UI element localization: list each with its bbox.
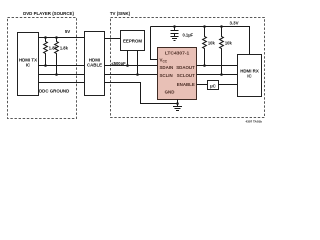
node R4 bottom junction (SCLOUT) [220, 73, 223, 76]
node ground junction [176, 102, 179, 105]
wire uC to HDMI RX [219, 84, 238, 86]
node R2 bottom junction (SCL) [55, 73, 58, 76]
node R1 top junction [44, 36, 47, 39]
svg-text:µC: µC [210, 83, 217, 88]
wire SCL (cable to SCLIN) [105, 74, 158, 76]
node R4 top junction [220, 25, 223, 28]
wire SDA (cable to SDAIN) [105, 65, 158, 67]
ground (chip GND) [173, 107, 182, 111]
svg-text:DVD PLAYER (SOURCE): DVD PLAYER (SOURCE) [23, 11, 74, 16]
node C1 rail junction [173, 25, 176, 28]
svg-text:5V: 5V [65, 29, 70, 34]
wire VCC (3.3V rail to VCC pin) [151, 27, 158, 60]
resistor R1 1.8k [44, 38, 58, 66]
svg-text:ENABLE: ENABLE [177, 82, 195, 87]
wire 3.3V rail [151, 27, 250, 55]
ground (under C1) [171, 37, 179, 41]
svg-text:10k: 10k [208, 40, 216, 45]
dashed box TV (sink) [111, 18, 265, 118]
EEPROM box [121, 31, 145, 51]
svg-text:SDAIN: SDAIN [160, 65, 174, 70]
wire SCL (source to cable) [39, 74, 85, 76]
wire DDC ground (cable to GND node) [105, 83, 178, 104]
svg-text:CABLE: CABLE [87, 63, 102, 68]
wire EEPROM pin to SCL [137, 51, 139, 75]
resistor R4 10k [220, 27, 233, 75]
op-amp U1 LTC4307-1 buffer [158, 48, 197, 100]
HDMI RX IC box [238, 55, 262, 97]
wire DDC ground (source to cable) [39, 82, 85, 84]
HDMI TX IC box [18, 33, 39, 96]
svg-text:DDC GROUND: DDC GROUND [39, 89, 69, 94]
wire SCLOUT to HDMI RX [197, 74, 238, 76]
wire GND pin to ground [177, 100, 179, 107]
wire EEPROM pin to SDA [127, 51, 129, 66]
wire 5V rail (source side) [39, 37, 85, 39]
node R2 top junction [55, 36, 58, 39]
svg-text:0.1µF: 0.1µF [183, 32, 194, 37]
node R3 bottom junction (SDAOUT) [203, 64, 206, 67]
svg-text:SDAOUT: SDAOUT [176, 65, 195, 70]
svg-text:VCC: VCC [160, 58, 168, 64]
node EEPROM SDA junction [126, 64, 129, 67]
svg-text:GND: GND [165, 90, 175, 95]
svg-text:1.8k: 1.8k [60, 45, 69, 50]
uC box [208, 81, 219, 90]
dashed box DVD player (source) [8, 18, 77, 119]
svg-text:EEPROM: EEPROM [123, 39, 142, 44]
wire 5V cable to EEPROM [105, 38, 121, 40]
svg-text:SCLIN: SCLIN [160, 73, 173, 78]
capacitor C1 0.1uF [171, 27, 194, 38]
svg-text:4307 TA01b: 4307 TA01b [246, 120, 263, 124]
wire SDAOUT to HDMI RX [197, 65, 238, 67]
svg-text:TV (SINK): TV (SINK) [110, 11, 131, 16]
node R3 top junction [203, 25, 206, 28]
HDMI CABLE box [85, 32, 105, 96]
svg-text:LTC4307-1: LTC4307-1 [165, 50, 190, 56]
wire SDA (source to cable) [39, 65, 85, 67]
svg-text:3.3V: 3.3V [229, 20, 238, 25]
resistor R3 10k [203, 27, 216, 66]
resistor R2 1.8k [55, 38, 69, 75]
svg-text:10k: 10k [225, 40, 233, 45]
wire ENABLE to uC [197, 84, 208, 86]
svg-text:SCLOUT: SCLOUT [177, 73, 195, 78]
node R1 bottom junction (SDA) [44, 64, 47, 67]
node EEPROM SCL junction [136, 73, 139, 76]
